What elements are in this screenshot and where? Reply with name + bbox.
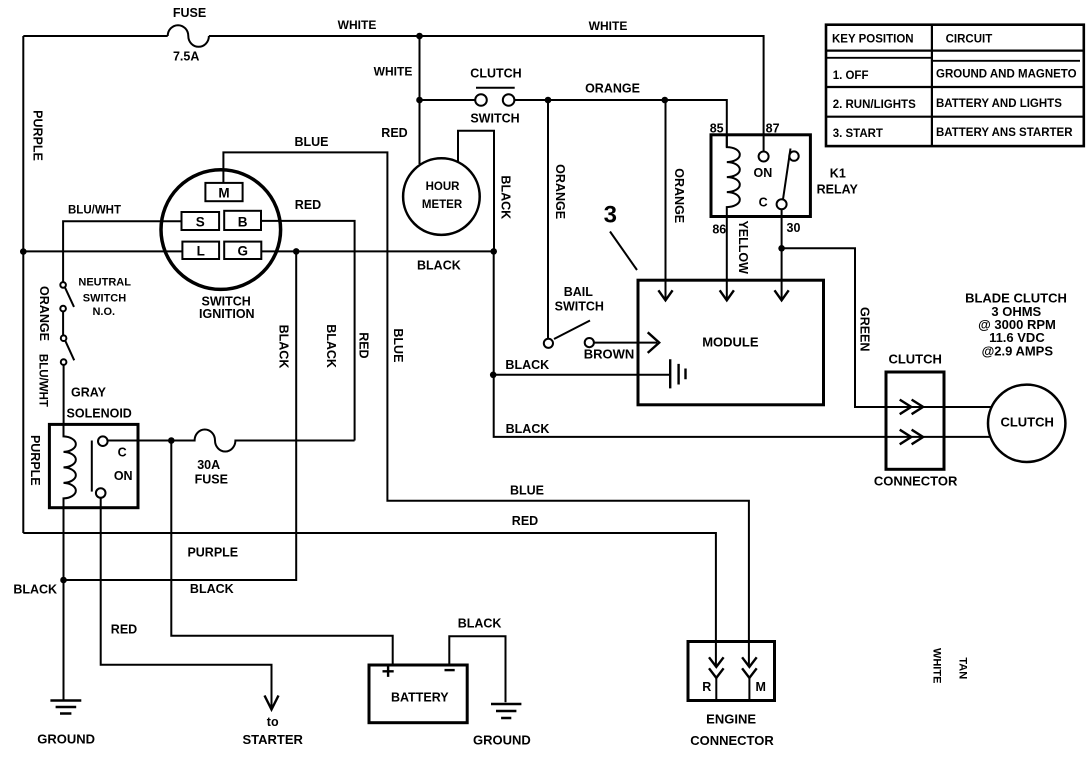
svg-text:86: 86 xyxy=(712,223,726,237)
svg-text:FUSE: FUSE xyxy=(195,472,228,486)
solenoid switch bar xyxy=(91,441,93,492)
svg-text:YELLOW: YELLOW xyxy=(736,220,750,274)
ground symbol (left) xyxy=(50,701,81,714)
svg-text:GROUND AND MAGNETO: GROUND AND MAGNETO xyxy=(936,69,1077,81)
key position table outer box xyxy=(826,25,1084,146)
wire: top bus left segment (purple to fuse) xyxy=(23,35,167,37)
wire: solenoid ON to starter xyxy=(101,498,272,709)
svg-text:TAN: TAN xyxy=(956,657,968,679)
wire: between neutral switch sections xyxy=(62,311,64,335)
engine connector M stub xyxy=(748,678,750,701)
table thin line right column xyxy=(932,60,1080,62)
table column divider xyxy=(931,25,933,146)
node: junction clutch switch row xyxy=(416,97,423,104)
ignition terminal S box xyxy=(182,212,220,230)
svg-text:METER: METER xyxy=(422,199,463,211)
svg-text:BLACK: BLACK xyxy=(276,325,290,369)
svg-text:BLUE: BLUE xyxy=(294,135,328,149)
wire: black vertical to clutch connector bus xyxy=(494,251,991,437)
svg-text:C: C xyxy=(759,195,768,209)
svg-text:MODULE: MODULE xyxy=(702,335,759,350)
neutral switch contact 4 xyxy=(61,359,67,365)
svg-text:BLU/WHT: BLU/WHT xyxy=(36,354,48,407)
ignition terminal B box xyxy=(224,211,261,230)
svg-text:85: 85 xyxy=(710,122,724,136)
neutral switch blade 2 xyxy=(65,341,74,361)
svg-text:HOUR: HOUR xyxy=(426,181,461,193)
svg-text:2. RUN/LIGHTS: 2. RUN/LIGHTS xyxy=(833,99,916,111)
svg-text:3. START: 3. START xyxy=(833,128,883,140)
svg-text:CLUTCH: CLUTCH xyxy=(888,352,941,367)
svg-text:PURPLE: PURPLE xyxy=(187,546,238,560)
battery plus symbol xyxy=(383,666,394,677)
svg-text:BLUE: BLUE xyxy=(391,328,405,362)
svg-text:ENGINE: ENGINE xyxy=(706,712,756,727)
svg-text:BATTERY ANS STARTER: BATTERY ANS STARTER xyxy=(936,127,1073,139)
table thin line left column xyxy=(826,57,932,59)
wire: purple/red bottom bus to engine connector R xyxy=(23,533,716,666)
solenoid contact ON xyxy=(96,488,106,498)
wire: blu/wht from S terminal to neutral switch xyxy=(63,221,181,282)
svg-text:7.5A: 7.5A xyxy=(173,50,199,64)
node: junction black module ground xyxy=(490,372,497,379)
svg-text:C: C xyxy=(118,446,127,460)
ignition switch body xyxy=(161,170,281,290)
relay contact C xyxy=(777,199,787,209)
svg-text:K1: K1 xyxy=(830,167,846,181)
bail switch blade xyxy=(554,321,590,340)
wire: hour meter black out to junction xyxy=(458,131,494,251)
arrowhead into module (yellow) xyxy=(720,290,734,300)
svg-text:GRAY: GRAY xyxy=(71,386,107,400)
svg-text:G: G xyxy=(237,244,248,259)
battery box xyxy=(369,665,467,723)
wire: white drop to clutch switch level xyxy=(419,36,421,100)
svg-text:R: R xyxy=(702,680,711,694)
svg-text:BLACK: BLACK xyxy=(505,358,549,372)
wire: green to clutch connector xyxy=(782,248,992,407)
svg-text:ON: ON xyxy=(114,469,133,483)
brown wire contact xyxy=(585,338,594,347)
clutch switch contact right xyxy=(503,94,515,106)
wire: neutral switch to solenoid xyxy=(63,365,65,425)
wire: clutch switch feed xyxy=(420,99,476,101)
svg-text:ON: ON xyxy=(754,166,773,180)
svg-text:CLUTCH: CLUTCH xyxy=(470,67,521,81)
table row separator 1 xyxy=(826,86,1084,88)
clutch connector chevrons (black line) xyxy=(900,430,923,445)
svg-text:ORANGE: ORANGE xyxy=(672,168,686,223)
engine connector box xyxy=(688,642,775,701)
wire: ignition L row from left bus xyxy=(23,250,182,252)
svg-text:CONNECTOR: CONNECTOR xyxy=(690,733,774,748)
wire: bail switch feed already drawn; bail switch contact xyxy=(544,339,553,348)
arrowhead into module (orange) xyxy=(658,290,672,300)
arrowhead brown into module xyxy=(648,332,660,353)
wire: red from B terminal to 30A fuse line xyxy=(261,221,355,441)
svg-text:CONNECTOR: CONNECTOR xyxy=(874,474,958,489)
svg-text:IGNITION: IGNITION xyxy=(199,307,255,321)
svg-text:1. OFF: 1. OFF xyxy=(833,70,869,82)
module box xyxy=(638,280,824,405)
svg-text:ORANGE: ORANGE xyxy=(37,286,51,341)
solenoid box xyxy=(49,424,138,507)
svg-text:L: L xyxy=(197,244,205,259)
svg-text:BLACK: BLACK xyxy=(499,175,513,219)
wire: relay pin 30 into module xyxy=(781,209,783,300)
svg-text:BLACK: BLACK xyxy=(458,617,502,631)
wire: ground drop (left) xyxy=(63,580,65,700)
node: junction orange / bail switch drop xyxy=(545,97,552,104)
relay contact ON xyxy=(759,152,769,162)
svg-text:RED: RED xyxy=(512,514,538,528)
wire: left purple vertical xyxy=(22,36,24,533)
svg-text:BLACK: BLACK xyxy=(506,422,550,436)
wire: top white bus to relay pin 87 xyxy=(209,36,764,152)
svg-text:GROUND: GROUND xyxy=(37,732,95,747)
node: junction orange / module drop xyxy=(662,97,669,104)
wire: ignition G row out to black junction xyxy=(261,250,493,252)
node: junction top bus / hour meter drop xyxy=(416,33,423,40)
svg-text:BLACK: BLACK xyxy=(417,259,461,273)
relay armature xyxy=(783,149,791,200)
svg-text:ORANGE: ORANGE xyxy=(585,82,640,96)
clutch body circle xyxy=(988,385,1065,462)
svg-text:CLUTCH: CLUTCH xyxy=(1000,415,1053,430)
svg-text:87: 87 xyxy=(766,122,780,136)
hour meter HM1 xyxy=(403,158,480,235)
relay armature pivot circle xyxy=(789,151,798,160)
svg-text:to: to xyxy=(267,715,279,729)
svg-text:BATTERY: BATTERY xyxy=(391,691,449,705)
svg-text:CIRCUIT: CIRCUIT xyxy=(946,33,993,45)
svg-text:WHITE: WHITE xyxy=(931,648,943,683)
wire: battery positive feed xyxy=(171,441,392,666)
svg-text:WHITE: WHITE xyxy=(589,19,628,33)
arrowhead into module (pin 30) xyxy=(775,290,789,300)
svg-text:WHITE: WHITE xyxy=(374,65,413,79)
table row separator 2 xyxy=(826,116,1084,118)
svg-text:30: 30 xyxy=(787,221,801,235)
svg-text:RED: RED xyxy=(381,126,407,140)
node: junction pin 30 / green xyxy=(778,245,785,252)
arrowhead to starter xyxy=(265,696,279,710)
solenoid contact C xyxy=(98,436,108,446)
svg-text:RED: RED xyxy=(295,198,321,212)
wire: solenoid C to 30A fuse to red riser xyxy=(108,430,355,452)
svg-text:N.O.: N.O. xyxy=(92,306,115,318)
svg-text:SWITCH: SWITCH xyxy=(555,299,604,313)
svg-text:BROWN: BROWN xyxy=(584,346,635,361)
ignition terminal M box xyxy=(205,183,242,201)
svg-text:BLACK: BLACK xyxy=(190,582,234,596)
svg-text:30A: 30A xyxy=(197,458,220,472)
svg-text:STARTER: STARTER xyxy=(242,732,303,747)
clutch connector box xyxy=(886,372,944,469)
svg-text:PURPLE: PURPLE xyxy=(28,435,42,486)
engine connector R terminal chevrons and stub xyxy=(709,657,724,678)
neutral switch blade 1 xyxy=(65,287,74,307)
clutch switch contact left xyxy=(475,94,487,106)
node: junction G row / hour meter / module black xyxy=(490,248,497,255)
svg-text:ORANGE: ORANGE xyxy=(553,164,567,219)
ignition terminal G box xyxy=(224,242,261,259)
solenoid coil and wire down to black junction xyxy=(64,424,76,579)
relay coil xyxy=(727,135,740,217)
wire: black from ignition down and across xyxy=(64,251,297,580)
clutch connector chevrons (green line) xyxy=(900,400,923,415)
svg-text:SWITCH: SWITCH xyxy=(470,112,519,126)
svg-text:RELAY: RELAY xyxy=(817,183,859,197)
node: junction 30A line / battery feed xyxy=(168,437,175,444)
svg-text:S: S xyxy=(196,215,205,230)
wire: orange drop to bail switch xyxy=(547,100,549,339)
wire: black to module internal ground xyxy=(493,374,670,376)
svg-text:SWITCH: SWITCH xyxy=(83,293,126,305)
svg-text:BLACK: BLACK xyxy=(324,324,338,368)
svg-text:GROUND: GROUND xyxy=(473,733,531,748)
svg-text:PURPLE: PURPLE xyxy=(30,110,44,161)
wire: red feed to hour meter xyxy=(419,100,421,164)
wire: blue from M terminal to engine connector M xyxy=(223,152,749,666)
svg-text:BLACK: BLACK xyxy=(13,583,57,597)
svg-text:M: M xyxy=(218,186,229,201)
engine connector M terminal chevrons xyxy=(742,657,757,678)
svg-text:BATTERY AND LIGHTS: BATTERY AND LIGHTS xyxy=(936,98,1062,110)
svg-text:WHITE: WHITE xyxy=(338,18,377,32)
svg-text:GREEN: GREEN xyxy=(858,307,872,351)
node: junction G row / black down xyxy=(293,248,300,255)
fuse F1 7.5A symbol xyxy=(168,25,209,47)
svg-text:3: 3 xyxy=(604,202,617,229)
wire: brown into module xyxy=(594,342,657,344)
svg-text:BAIL: BAIL xyxy=(564,285,594,299)
neutral switch contact 3 xyxy=(61,335,67,341)
svg-text:M: M xyxy=(755,680,765,694)
engine connector R stub xyxy=(715,678,717,701)
svg-text:BLUE: BLUE xyxy=(510,484,544,498)
wire: orange drop into module xyxy=(665,100,667,300)
wire: battery negative to ground xyxy=(449,636,505,702)
ignition terminal L box xyxy=(182,242,219,259)
node: junction black / solenoid coil / ground xyxy=(60,577,67,584)
battery minus symbol xyxy=(445,669,455,671)
neutral switch contact 1 xyxy=(60,282,66,288)
node: junction left vertical / ignition row xyxy=(20,248,27,255)
svg-text:RED: RED xyxy=(111,623,137,637)
svg-text:B: B xyxy=(238,215,248,230)
table header separator xyxy=(826,49,1084,51)
svg-text:RED: RED xyxy=(357,332,371,358)
svg-text:@2.9 AMPS: @2.9 AMPS xyxy=(982,343,1054,358)
relay K1 box xyxy=(711,135,810,217)
svg-text:SOLENOID: SOLENOID xyxy=(67,407,132,421)
wire: relay pin 86 yellow into module xyxy=(726,217,728,301)
clutch switch actuator bar xyxy=(476,87,515,89)
wire: orange bus from clutch switch to relay pin 85 xyxy=(514,100,726,147)
svg-text:BLU/WHT: BLU/WHT xyxy=(68,205,121,217)
ground symbol (battery) xyxy=(491,704,521,718)
neutral switch contact 2 xyxy=(60,306,66,312)
svg-text:FUSE: FUSE xyxy=(173,6,206,20)
callout 3 pointer line xyxy=(610,232,637,271)
module internal ground symbol xyxy=(670,359,685,388)
svg-text:KEY POSITION: KEY POSITION xyxy=(832,33,914,45)
svg-text:NEUTRAL: NEUTRAL xyxy=(78,277,131,289)
